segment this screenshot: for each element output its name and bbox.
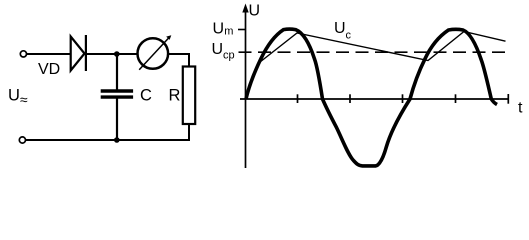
t-axis tick 1	[297, 94, 299, 103]
t-axis tick 4	[455, 94, 457, 103]
wire resistor bottom lead	[188, 124, 190, 141]
svg-text:U: U	[212, 41, 224, 58]
svg-text:U: U	[249, 2, 261, 19]
wire bottom rail	[26, 139, 189, 141]
meter U1 circle	[138, 38, 169, 69]
wire diode to junction to voltmeter	[86, 53, 138, 55]
dashed line Ucp level	[239, 51, 509, 53]
axis t end bar	[507, 94, 509, 104]
capacitor C top plate	[101, 89, 133, 92]
svg-text:C: C	[140, 87, 152, 105]
terminal top-left	[20, 51, 26, 57]
svg-text:U≈: U≈	[8, 87, 28, 108]
meter arrow	[139, 37, 170, 70]
tick Um level	[238, 29, 246, 31]
terminal bottom-left	[19, 137, 25, 143]
resistor R body	[183, 67, 195, 125]
diode VD anode triangle	[71, 37, 85, 71]
axis U vertical	[245, 8, 247, 168]
svg-text:U: U	[213, 20, 225, 37]
svg-text:cp: cp	[223, 49, 235, 61]
curve uc thin rectified envelope	[258, 32, 506, 65]
svg-text:R: R	[169, 87, 181, 105]
svg-text:VD: VD	[38, 61, 60, 78]
svg-text:m: m	[224, 26, 233, 38]
meter arrowhead	[166, 35, 171, 40]
axis U arrowhead	[242, 4, 248, 13]
wire capacitor top lead	[116, 54, 118, 90]
svg-text:U: U	[334, 20, 346, 37]
node junction top	[114, 51, 120, 57]
node junction bottom	[114, 137, 120, 143]
wire input top	[27, 53, 70, 55]
axis t horizontal	[240, 98, 509, 100]
curve input sine thick	[246, 29, 497, 166]
capacitor C bottom plate	[101, 95, 133, 98]
t-axis tick 3	[402, 94, 404, 103]
wire capacitor bottom lead	[116, 98, 118, 140]
svg-text:c: c	[346, 29, 352, 41]
wire meter to resistor corner	[168, 54, 189, 67]
diode VD cathode bar	[85, 35, 87, 71]
t-axis tick 2	[349, 94, 351, 103]
svg-text:t: t	[518, 100, 523, 117]
